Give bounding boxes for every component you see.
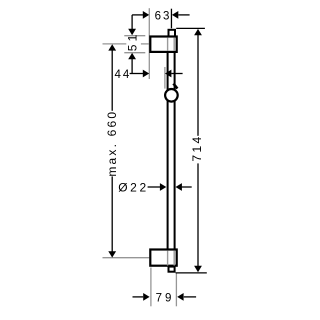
dim 51 vertical line top	[131, 15, 133, 29]
arrow 714 up	[194, 29, 202, 35]
dim 79 right shaft	[184, 296, 196, 298]
svg-text:63: 63	[155, 11, 172, 23]
arrow 714 down	[194, 266, 202, 272]
dim 63 line left	[132, 14, 143, 16]
extension line 51 bottom	[124, 52, 145, 54]
extension line 79 right	[175, 274, 177, 307]
dim 63 line right	[178, 14, 189, 16]
dim 714 line upper	[197, 35, 199, 136]
arrow 79 right	[177, 293, 183, 301]
wall bar rod	[168, 52, 175, 250]
extension line max660 bottom (bracket axis)	[103, 257, 150, 259]
svg-text:714: 714	[190, 134, 204, 161]
extension line left of 63 (wall plate left edge)	[148, 8, 150, 79]
dim 79 left shaft	[133, 296, 144, 298]
extension cap bottom to 714	[176, 272, 207, 274]
extension line 79 left	[150, 268, 152, 307]
arrow 44 right	[165, 70, 171, 78]
bottom end cap	[169, 267, 175, 272]
svg-text:79: 79	[156, 293, 175, 305]
bottom wall bracket	[150, 250, 176, 266]
dim max660 line lower	[111, 176, 113, 251]
arrow 63 left	[143, 11, 149, 19]
extension line max660 top (bracket axis)	[103, 43, 127, 45]
extension line 51 top	[124, 35, 145, 37]
dim diam22 right shaft	[182, 186, 192, 188]
top wall bracket	[150, 37, 176, 52]
slider clip	[173, 84, 177, 89]
svg-text:44: 44	[115, 69, 132, 81]
slider ring	[165, 89, 178, 102]
arrow 51 bottom	[128, 53, 136, 59]
extension pin top to 714	[176, 27, 205, 29]
hidden rod lines in top bracket	[167, 38, 169, 51]
extension line 63 right (rod axis)	[170, 9, 172, 29]
dim 51 vertical line bottom	[131, 59, 133, 74]
dim 714 line lower	[197, 163, 199, 266]
arrow 79 left	[143, 293, 149, 301]
extension line 44 right (slider edge)	[164, 67, 166, 89]
dim max660 line upper	[111, 50, 113, 111]
arrow 63 right	[172, 11, 178, 19]
arrow max660 up	[108, 44, 116, 50]
dim 44 line	[130, 73, 143, 75]
arrow diam22 left	[160, 183, 166, 191]
arrow diam22 right	[176, 183, 182, 191]
svg-text:max. 660: max. 660	[105, 110, 119, 177]
arrow 44 left	[143, 70, 149, 78]
dim diam22 left shaft	[148, 186, 161, 188]
top end pin	[169, 30, 176, 38]
arrow 51 top	[128, 29, 136, 35]
svg-text:51: 51	[125, 31, 139, 51]
dim 44 right shaft	[171, 73, 182, 75]
svg-text:Ø22: Ø22	[118, 181, 148, 195]
arrow max660 down	[108, 251, 116, 257]
hidden rod lines in bottom bracket	[167, 251, 169, 266]
